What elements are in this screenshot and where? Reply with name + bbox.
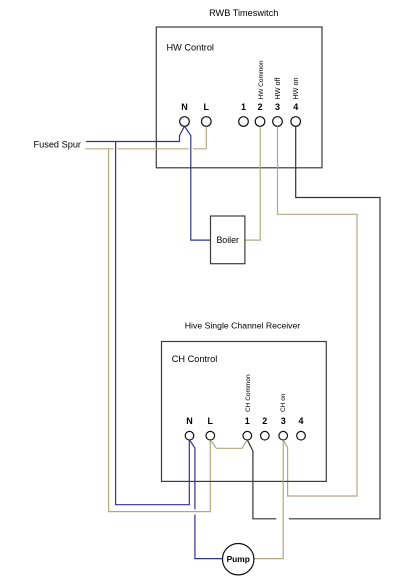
wire tan HW Common to boiler <box>245 127 260 241</box>
terminal L (receiver) <box>206 431 215 440</box>
terminal L (timeswitch) <box>202 117 212 127</box>
wire tan fused spur to L (segment 3) <box>193 127 207 149</box>
terminal 4 (receiver) <box>297 431 306 440</box>
wire tan link L to 1 <box>211 440 247 448</box>
box HW Control (timeswitch) <box>156 27 322 168</box>
svg-text:1: 1 <box>245 416 250 426</box>
svg-text:3: 3 <box>275 102 280 112</box>
wire tan fused spur to L (segment 1) <box>86 148 114 150</box>
svg-text:HW Common: HW Common <box>258 60 265 99</box>
svg-text:Hive Single Channel Receiver: Hive Single Channel Receiver <box>185 321 301 331</box>
svg-text:HW Control: HW Control <box>167 43 214 53</box>
terminal 3 HW off (timeswitch) <box>273 117 283 127</box>
svg-text:N: N <box>181 102 188 112</box>
svg-text:L: L <box>208 416 214 426</box>
terminal 1 CH Common (receiver) <box>243 431 252 440</box>
svg-text:Boiler: Boiler <box>216 235 239 245</box>
svg-text:2: 2 <box>257 102 262 112</box>
svg-text:HW off: HW off <box>273 78 282 100</box>
wire tan riser fused spur to receiver L <box>109 149 211 512</box>
wire blue riser fused spur to receiver N <box>116 142 190 505</box>
box Boiler <box>211 216 245 264</box>
wire blue receiver N to pump <box>190 440 195 509</box>
terminal 3 CH on (receiver) <box>279 431 288 440</box>
svg-text:N: N <box>186 416 193 426</box>
svg-text:Fused Spur: Fused Spur <box>34 140 82 150</box>
wire tan fused spur to L (segment 2) <box>117 148 188 150</box>
svg-text:2: 2 <box>262 416 267 426</box>
terminal 2 HW Common (timeswitch) <box>255 117 265 127</box>
svg-text:4: 4 <box>293 102 298 112</box>
svg-text:CH Common: CH Common <box>245 374 252 412</box>
wire blue receiver N to pump (segment 2) <box>195 515 223 559</box>
svg-text:3: 3 <box>281 416 286 426</box>
wire blue N to boiler <box>185 127 211 241</box>
svg-text:4: 4 <box>298 416 303 426</box>
circle Pump <box>223 544 254 575</box>
wire tan receiver CH on to pump <box>254 440 283 558</box>
terminal 1 (timeswitch) <box>239 117 249 127</box>
terminal 4 HW on (timeswitch) <box>291 117 301 127</box>
svg-text:RWB Timeswitch: RWB Timeswitch <box>209 8 278 18</box>
svg-text:CH Control: CH Control <box>172 354 217 364</box>
wire blue fused spur to N <box>86 127 184 142</box>
svg-text:CH on: CH on <box>280 393 287 412</box>
svg-text:1: 1 <box>241 102 246 112</box>
wire tan HW off to receiver CH on <box>278 127 358 497</box>
terminal N (timeswitch) <box>180 117 190 127</box>
wire black HW on to right side (segment 1) <box>289 127 380 519</box>
box CH Control (receiver) <box>162 342 327 482</box>
wire black HW on to receiver CH Common (segment 2) <box>248 440 277 519</box>
svg-text:HW on: HW on <box>291 78 300 100</box>
terminal 2 (receiver) <box>261 431 270 440</box>
svg-text:L: L <box>204 102 210 112</box>
svg-text:Pump: Pump <box>227 554 250 564</box>
terminal N (receiver) <box>185 431 194 440</box>
